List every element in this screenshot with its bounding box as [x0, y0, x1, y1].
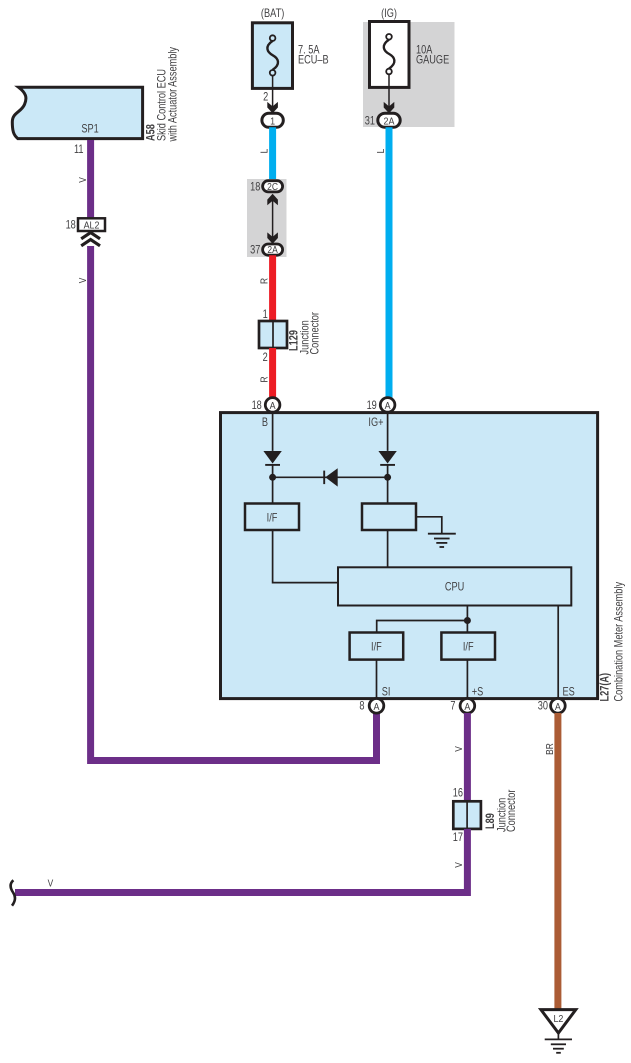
- svg-text:V: V: [48, 878, 54, 890]
- svg-text:Connector: Connector: [506, 789, 518, 832]
- ground L2: [541, 1010, 576, 1053]
- svg-text:8: 8: [359, 700, 364, 712]
- pin 30 label: [538, 700, 548, 712]
- junction dot left: [269, 474, 276, 481]
- svg-text:2A: 2A: [267, 245, 278, 256]
- svg-text:17: 17: [453, 832, 463, 844]
- wire D2 to junction: [387, 465, 389, 504]
- svg-text:ES: ES: [563, 687, 575, 699]
- svg-text:1: 1: [270, 116, 275, 128]
- svg-text:R: R: [259, 376, 271, 382]
- svg-text:16: 16: [453, 788, 463, 800]
- wire fuse F2 to connector 2A: [388, 74, 390, 107]
- node IG+ label: [368, 417, 383, 429]
- fuse F1 7.5A ECU-B (BAT): [252, 8, 328, 88]
- wire label L: [259, 149, 271, 154]
- wire break squiggle: [11, 880, 15, 905]
- connector node 1: [262, 113, 283, 127]
- label L27(A) Combination Meter Assembly: [599, 581, 625, 701]
- wire V (violet) AL2 down and to pin 8: [91, 246, 377, 761]
- junction dot right: [384, 474, 391, 481]
- connector node 2A lower: [263, 244, 283, 255]
- wire label V: [453, 746, 465, 752]
- wire L (blue) fuse1 to 2C: [269, 127, 276, 181]
- wire BR (brown) pin 30 to ground L2: [554, 713, 561, 1011]
- wire I/F lower left to pin 8: [376, 660, 378, 698]
- wire CPU to pin 30 (ES): [557, 606, 559, 698]
- svg-text:(BAT): (BAT): [261, 8, 284, 20]
- pin 11 label: [74, 144, 84, 156]
- node ES label: [563, 687, 575, 699]
- wire label V horizontal: [48, 878, 54, 890]
- diode D1: [263, 451, 281, 465]
- svg-text:I/F: I/F: [463, 641, 474, 653]
- pin 18 label: [66, 219, 76, 231]
- svg-text:with Actuator Assembly: with Actuator Assembly: [168, 46, 180, 142]
- chevron arrows below AL2: [81, 233, 100, 246]
- svg-text:V: V: [77, 277, 89, 283]
- svg-text:B: B: [262, 417, 268, 429]
- svg-text:19: 19: [367, 400, 377, 412]
- wire label R: [259, 376, 271, 382]
- svg-text:BR: BR: [544, 743, 556, 755]
- internal wire pin19 to diode D2: [387, 412, 389, 451]
- wire regulator to ground: [416, 517, 442, 534]
- pin 19 label: [367, 400, 377, 412]
- svg-text:31: 31: [365, 116, 375, 128]
- junction connector L89: [453, 801, 481, 829]
- wire CPU to junction dot: [466, 606, 468, 633]
- svg-text:2: 2: [263, 352, 268, 364]
- svg-text:L2: L2: [553, 1013, 563, 1025]
- pin 2 label: [263, 92, 268, 104]
- junction dot below CPU: [464, 617, 471, 624]
- internal wire pin18 to diode D1: [272, 412, 274, 451]
- svg-text:37: 37: [250, 245, 260, 257]
- wire V (violet) SP1 to AL2: [87, 140, 94, 218]
- wire label L: [375, 149, 387, 154]
- svg-text:A: A: [555, 701, 561, 713]
- interface block I/F lower right: [441, 633, 495, 660]
- svg-text:18: 18: [252, 400, 262, 412]
- ECU A58 Skid Control box SP1: [12, 87, 142, 138]
- svg-text:R: R: [259, 278, 271, 284]
- CPU block: [338, 567, 571, 605]
- svg-text:I/F: I/F: [371, 641, 382, 653]
- svg-text:2: 2: [263, 92, 268, 104]
- pin 8 label: [359, 700, 364, 712]
- svg-text:Combination Meter Assembly: Combination Meter Assembly: [614, 581, 626, 701]
- svg-text:V: V: [453, 862, 465, 868]
- svg-text:A: A: [385, 400, 391, 412]
- svg-text:AL2: AL2: [84, 220, 100, 232]
- svg-text:+S: +S: [472, 687, 484, 699]
- combination meter box L27(A): [221, 413, 598, 699]
- svg-text:V: V: [453, 746, 465, 752]
- svg-text:A: A: [270, 400, 276, 412]
- svg-text:11: 11: [74, 144, 84, 156]
- wire I/F lower right to pin 7: [466, 660, 468, 698]
- svg-text:A: A: [464, 701, 470, 713]
- node SI label: [382, 687, 391, 699]
- wire fuse F1 to connector 1: [272, 76, 274, 108]
- wire junction to I/F lower left: [377, 621, 468, 633]
- svg-text:GAUGE: GAUGE: [416, 55, 449, 67]
- svg-text:CPU: CPU: [445, 582, 464, 594]
- svg-text:ECU–B: ECU–B: [298, 55, 329, 67]
- pin 8 connector A: [369, 699, 384, 714]
- pin 16 label: [453, 788, 463, 800]
- pin 30 connector A: [551, 699, 566, 714]
- cross wire with diode D3: [273, 468, 388, 486]
- svg-text:Connector: Connector: [310, 312, 322, 355]
- interface block I/F upper left: [245, 504, 299, 531]
- wire label R: [259, 278, 271, 284]
- svg-text:L27(A): L27(A): [599, 673, 611, 702]
- junction block 2C/2A gray area: [247, 179, 287, 257]
- svg-text:2A: 2A: [384, 116, 395, 128]
- label L89 Junction Connector: [485, 789, 518, 832]
- wire V (violet) pin 7 to L89: [464, 713, 471, 802]
- label A58 Skid Control ECU with Actuator Assembly: [146, 46, 180, 142]
- wire D1 to junction: [272, 465, 274, 504]
- wire V (violet) L89 down and left: [15, 829, 467, 893]
- wire L (blue) fuse2 to pin 19: [386, 127, 393, 398]
- connector AL2: [78, 218, 105, 231]
- wire label V: [77, 277, 89, 283]
- pin 18 connector A: [265, 398, 280, 413]
- pin 7 connector A: [460, 699, 475, 714]
- svg-text:V: V: [77, 177, 89, 183]
- svg-text:SI: SI: [382, 687, 391, 699]
- svg-text:L: L: [375, 149, 387, 154]
- arrow into connector 2A: [384, 102, 395, 113]
- ground symbol internal: [428, 534, 456, 547]
- svg-text:I/F: I/F: [267, 512, 278, 524]
- pin 19 connector A: [380, 398, 395, 413]
- svg-text:30: 30: [538, 700, 548, 712]
- svg-text:IG+: IG+: [368, 417, 383, 429]
- svg-text:1: 1: [263, 309, 268, 321]
- node B label: [262, 417, 268, 429]
- svg-text:(IG): (IG): [381, 8, 397, 20]
- wire R (red) 2A to L129: [269, 255, 276, 322]
- diode D2: [378, 451, 396, 465]
- wire label V: [77, 177, 89, 183]
- wire R (red) L129 to pin 18A: [269, 348, 276, 398]
- pin 18 label: [252, 400, 262, 412]
- pin 18 label (2C): [250, 181, 260, 193]
- label L129 Junction Connector: [289, 312, 322, 355]
- wire regulator to CPU: [387, 530, 389, 567]
- regulator block (unlabeled): [362, 504, 416, 531]
- svg-text:18: 18: [66, 219, 76, 231]
- pin 31 label: [365, 116, 375, 128]
- pin 17 label: [453, 832, 463, 844]
- node +S label: [472, 687, 484, 699]
- svg-text:A: A: [374, 701, 380, 713]
- arrow into connector 1: [267, 102, 278, 113]
- pin 7 label: [450, 700, 455, 712]
- svg-text:L: L: [259, 149, 271, 154]
- wire I/F to CPU: [273, 530, 338, 583]
- pin 1 label: [263, 309, 268, 321]
- double-ended arrow between 2C and 2A: [267, 194, 278, 244]
- svg-text:2C: 2C: [267, 181, 278, 192]
- svg-text:L89: L89: [485, 813, 497, 829]
- wire label V: [453, 862, 465, 868]
- pin 2 label: [263, 352, 268, 364]
- fuse F2 10A GAUGE (IG): [363, 8, 455, 127]
- connector node 2A: [378, 113, 400, 127]
- svg-text:SP1: SP1: [81, 124, 99, 136]
- pin 37 label: [250, 245, 260, 257]
- junction connector L129: [259, 321, 287, 348]
- svg-text:7: 7: [450, 700, 455, 712]
- interface block I/F lower left: [350, 633, 404, 660]
- wire label BR: [544, 743, 556, 755]
- svg-text:18: 18: [250, 181, 260, 193]
- connector node 2C: [263, 181, 283, 192]
